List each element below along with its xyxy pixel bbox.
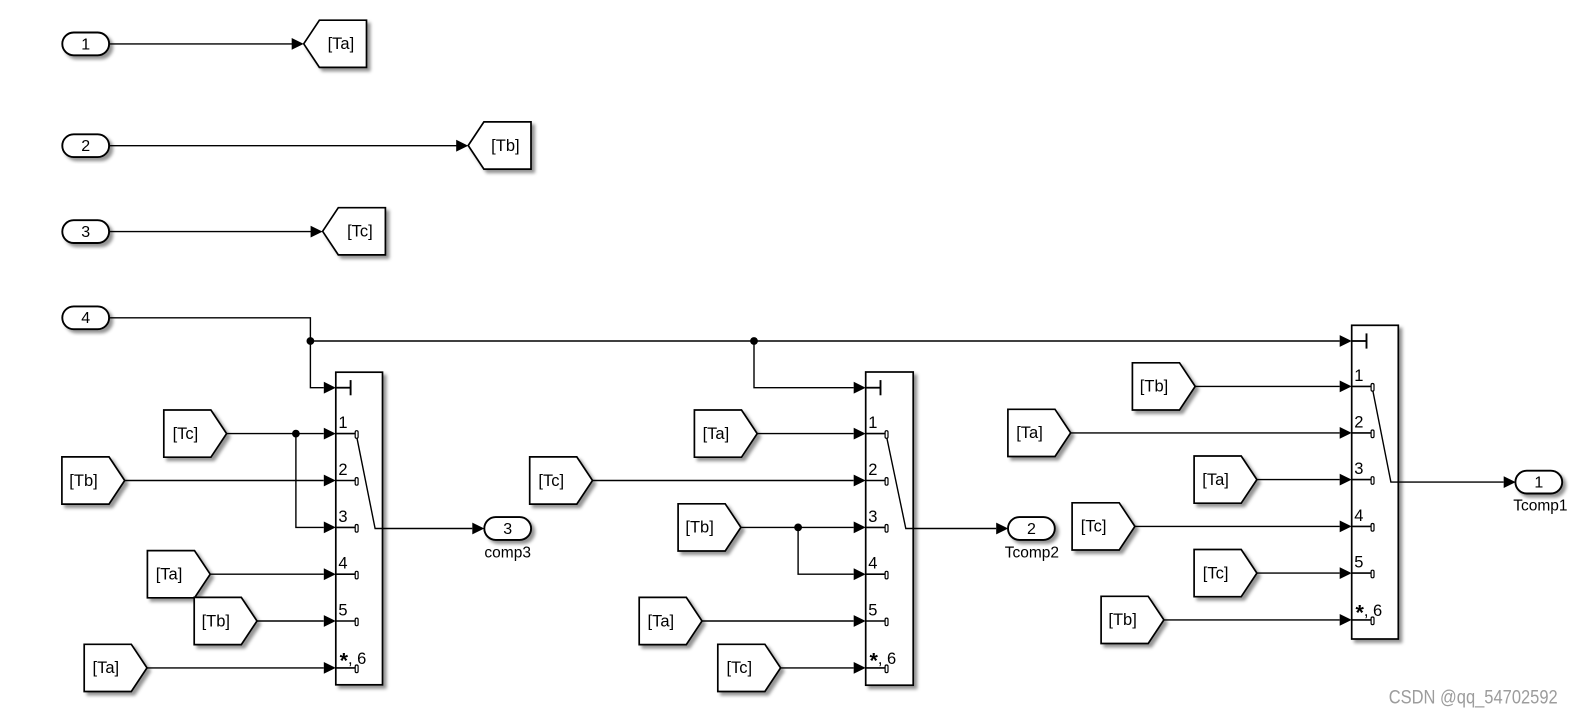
- svg-text:[Tc]: [Tc]: [1081, 518, 1107, 536]
- svg-text:2: 2: [868, 461, 877, 479]
- S3 pin 1: [1352, 385, 1371, 387]
- node A junction: [307, 337, 315, 345]
- wire from [Ta] to S1 pin4: [210, 573, 324, 575]
- svg-text:2: 2: [338, 461, 347, 479]
- S3 selector diagonal: [1373, 391, 1398, 482]
- svg-text:[Tc]: [Tc]: [726, 659, 752, 677]
- S1 pin 2: [336, 480, 355, 482]
- S1 pin 6: [336, 667, 355, 669]
- wire from [Tb] to S3 pin1: [1195, 385, 1340, 387]
- outport 2 Tcomp2: [1008, 517, 1055, 540]
- svg-text:4: 4: [81, 310, 90, 327]
- svg-text:[Ta]: [Ta]: [647, 612, 674, 630]
- from [Tc] (S2 pin6): [718, 644, 781, 691]
- S3 pin 2: [1352, 432, 1371, 434]
- svg-text:[Ta]: [Ta]: [156, 566, 183, 584]
- wire from [Tc] to S2 pin2: [593, 480, 854, 482]
- svg-text:Tcomp2: Tcomp2: [1005, 545, 1059, 562]
- S3 pin 6: [1352, 619, 1371, 621]
- inport 2: [62, 134, 109, 157]
- svg-text:2: 2: [1027, 521, 1036, 538]
- S1 pin 5: [336, 620, 355, 622]
- node D junction: [794, 524, 802, 532]
- inport 3: [62, 220, 109, 243]
- svg-text:[Ta]: [Ta]: [328, 35, 355, 53]
- svg-text:CSDN @qq_54702592: CSDN @qq_54702592: [1389, 688, 1558, 709]
- wire from [Tc] to S3 pin4: [1135, 525, 1340, 527]
- node C junction: [292, 430, 300, 438]
- goto [Tc]: [323, 208, 386, 255]
- svg-text:[Tc]: [Tc]: [538, 472, 564, 490]
- from [Ta] (S3 pin2): [1008, 409, 1071, 456]
- node B junction: [750, 337, 758, 345]
- wire from [Ta] to S3 pin3: [1257, 479, 1340, 481]
- S1 control port marker: [336, 387, 351, 389]
- svg-text:5: 5: [338, 602, 347, 620]
- svg-text:1: 1: [868, 414, 877, 432]
- outport 1 Tcomp1: [1515, 471, 1562, 494]
- svg-text:1: 1: [81, 36, 90, 53]
- wire from [Ta] to S2 pin1: [757, 433, 854, 435]
- multiport switch S2: [866, 372, 914, 685]
- svg-text:3: 3: [503, 521, 512, 538]
- wire S2 output to outport Tcomp2: [913, 528, 996, 530]
- S3 pin 3: [1352, 479, 1371, 481]
- svg-text:[Ta]: [Ta]: [92, 659, 119, 677]
- goto [Ta]: [304, 20, 367, 67]
- svg-text:5: 5: [868, 602, 877, 620]
- S2 pin 1: [866, 433, 885, 435]
- wire inport3 to Goto Tc: [109, 231, 311, 233]
- S2 control port marker: [866, 387, 881, 389]
- from [Tb] (S3 pin1): [1132, 363, 1195, 410]
- wire inport1 to Goto Ta: [109, 43, 292, 45]
- from [Tb] (S1 pin5): [194, 597, 257, 644]
- svg-text:3: 3: [81, 224, 90, 241]
- wire node C down to S1 pin3: [296, 434, 324, 528]
- svg-text:2: 2: [81, 138, 90, 155]
- svg-text:4: 4: [868, 555, 877, 573]
- long control wire to switch S3: [310, 340, 1339, 342]
- svg-text:comp3: comp3: [484, 545, 531, 562]
- svg-text:[Tc]: [Tc]: [1203, 564, 1229, 582]
- svg-text:[Tc]: [Tc]: [347, 223, 373, 241]
- from [Ta] (S3 pin3): [1194, 456, 1257, 503]
- S1 selector diagonal: [357, 438, 383, 528]
- svg-text:2: 2: [1354, 413, 1363, 431]
- S2 pin 2: [866, 480, 885, 482]
- from [Ta] (S2 pin5): [639, 597, 702, 644]
- multiport switch S3: [1352, 325, 1399, 639]
- svg-text:1: 1: [1534, 475, 1543, 492]
- S3 pin 5: [1352, 572, 1371, 574]
- S2 selector diagonal: [887, 438, 913, 528]
- wire node D down to S2 pin4: [798, 527, 854, 574]
- inport 1: [62, 33, 109, 56]
- wire S1 output to outport comp3: [383, 528, 473, 530]
- from [Ta] (S2 pin1): [694, 410, 757, 457]
- S2 pin 5: [866, 620, 885, 622]
- wire from [Tb] to S1 pin2: [125, 480, 324, 482]
- wire from [Ta] to S1 pin6: [147, 667, 324, 669]
- wire from [Tb] to S1 pin5: [257, 620, 324, 622]
- svg-text:[Tb]: [Tb]: [685, 519, 713, 537]
- wire from [Tb] to S2 pin3: [741, 526, 854, 528]
- wire inport2 to Goto Tb: [109, 145, 456, 147]
- outport 3 comp3: [484, 517, 531, 540]
- wire from [Tc] to S3 pin5: [1257, 572, 1340, 574]
- S1 pin 1: [336, 433, 355, 435]
- S3 control port marker: [1352, 340, 1367, 342]
- svg-text:[Ta]: [Ta]: [1202, 471, 1229, 489]
- svg-text:3: 3: [1354, 460, 1363, 478]
- S1 pin 3: [336, 526, 355, 528]
- wire S3 output to outport Tcomp1: [1398, 481, 1503, 483]
- svg-text:[Tc]: [Tc]: [173, 425, 199, 443]
- S1 pin 4: [336, 573, 355, 575]
- wire from [Tb] to S3 pin6: [1164, 619, 1340, 621]
- svg-text:[Ta]: [Ta]: [1016, 424, 1043, 442]
- svg-text:[Tb]: [Tb]: [1140, 378, 1168, 396]
- svg-text:4: 4: [1354, 507, 1363, 525]
- svg-text:5: 5: [1354, 554, 1363, 572]
- from [Tc] (S3 pin5): [1194, 550, 1257, 597]
- svg-text:Tcomp1: Tcomp1: [1513, 498, 1567, 515]
- wire from [Tc] to S2 pin6: [781, 667, 854, 669]
- svg-text:1: 1: [338, 414, 347, 432]
- svg-text:[Tb]: [Tb]: [202, 612, 230, 630]
- wire from [Ta] to S2 pin5: [702, 620, 854, 622]
- S2 pin 6: [866, 667, 885, 669]
- wire from [Tc] to S1 pin1: [227, 433, 324, 435]
- from [Tc] (S1 pin1): [164, 410, 227, 457]
- wire node B down to S2 control: [754, 341, 854, 388]
- svg-text:[Tb]: [Tb]: [69, 472, 97, 490]
- from [Tc] (S2 pin2): [530, 457, 593, 504]
- svg-text:[Ta]: [Ta]: [703, 425, 730, 443]
- from [Tb] (S3 pin6): [1101, 596, 1164, 643]
- svg-text:3: 3: [868, 508, 877, 526]
- inport 4: [62, 306, 109, 329]
- multiport switch S1: [336, 372, 383, 685]
- wire from [Ta] to S3 pin2: [1071, 432, 1340, 434]
- S3 pin 4: [1352, 525, 1371, 527]
- goto [Tb]: [468, 122, 531, 169]
- svg-text:3: 3: [338, 508, 347, 526]
- svg-text:1: 1: [1354, 367, 1363, 385]
- from [Ta] (S1 pin6): [84, 644, 147, 691]
- wire node A down to S1 control: [310, 341, 323, 388]
- from [Tb] (S1 pin2): [62, 457, 125, 504]
- from [Tc] (S3 pin4): [1072, 503, 1135, 550]
- from [Tb] (S2 pin3): [678, 504, 741, 551]
- S2 pin 4: [866, 573, 885, 575]
- S2 pin 3: [866, 526, 885, 528]
- from [Ta] (S1 pin4): [147, 551, 210, 598]
- svg-text:[Tb]: [Tb]: [1108, 611, 1136, 629]
- svg-text:[Tb]: [Tb]: [491, 137, 519, 155]
- svg-text:4: 4: [338, 555, 347, 573]
- wire inport4 to node A: [109, 318, 310, 341]
